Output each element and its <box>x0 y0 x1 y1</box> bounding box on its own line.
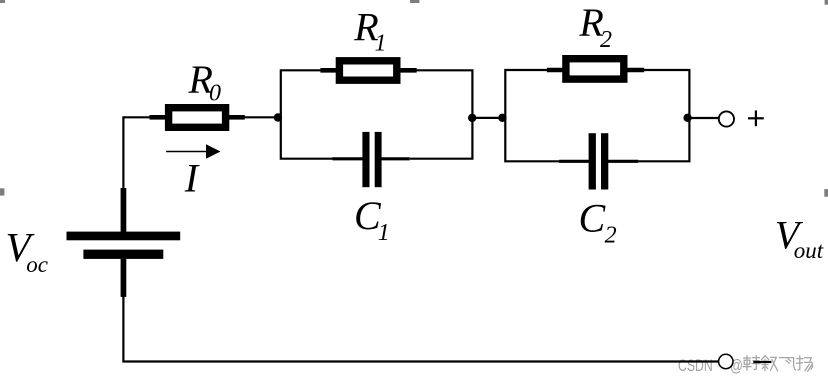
svg-text:2: 2 <box>600 27 612 53</box>
svg-text:CSDN: CSDN <box>678 357 713 375</box>
svg-text:C: C <box>579 196 607 241</box>
svg-text:0: 0 <box>209 81 221 107</box>
svg-text:1: 1 <box>375 30 387 56</box>
svg-text:1: 1 <box>378 220 390 246</box>
svg-text:2: 2 <box>605 222 617 248</box>
svg-text:out: out <box>794 238 824 263</box>
svg-text:I: I <box>184 155 200 200</box>
svg-text:oc: oc <box>26 252 48 277</box>
